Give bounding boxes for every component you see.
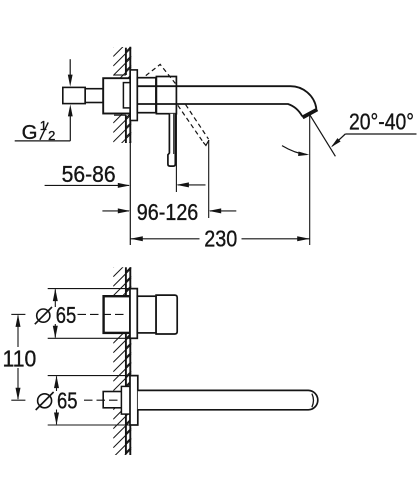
wall line right / finished wall face (top view), continues as extension line for dims	[129, 47, 131, 143]
svg-text:20°-40°: 20°-40°	[349, 109, 414, 135]
union section	[85, 89, 103, 103]
angle leader line	[332, 134, 345, 146]
swivel arc arrow	[282, 146, 307, 155]
extension line at dashed lever tip	[208, 140, 210, 218]
dim 96-126 line right tail	[210, 210, 236, 212]
handle centerline	[11, 313, 25, 315]
escutcheon (top view)	[130, 70, 137, 121]
svg-text:96-126: 96-126	[137, 199, 199, 225]
svg-text:65: 65	[57, 387, 78, 413]
spout escutcheon (bottom view)	[130, 376, 138, 425]
wall section (bottom view) hatching	[113, 249, 131, 476]
handle knob inner	[137, 296, 156, 333]
dim 56-86 line left tail	[45, 184, 129, 186]
extension line at spout tip	[309, 114, 311, 245]
dim text dia65 (handle)	[37, 309, 50, 322]
dim 110 line+arrows	[17, 316, 19, 348]
dim 96-126 line left tail	[102, 210, 129, 212]
spout tube bottom outline	[137, 104, 302, 116]
dim 56-86 line right tail	[178, 184, 206, 186]
dim diameter 65 (handle) extension lines	[48, 288, 138, 290]
wall section (top view) hatching	[113, 29, 131, 161]
handle escutcheon	[130, 289, 137, 339]
collar section	[137, 78, 156, 113]
dim diameter 65 (spout) line+arrows	[56, 376, 58, 391]
spout through-wall sleeve (bottom view)	[121, 386, 130, 414]
dim diameter 65 (spout) extension lines	[48, 375, 138, 377]
concealed body (in wall)	[103, 78, 130, 113]
dim text dia65 (spout)	[38, 394, 52, 408]
wall line left (bottom view)	[125, 267, 127, 296]
lever dashed position swung out	[178, 105, 203, 142]
dim diameter 65 (handle) line+arrows	[54, 289, 56, 307]
svg-text:1: 1	[40, 118, 47, 133]
lever dashed position up (rotated)	[146, 64, 176, 83]
spout supply pipe (bottom view)	[103, 392, 130, 408]
G1/2 label underline	[15, 140, 71, 142]
spout outlet face	[302, 108, 318, 118]
wall line right (bottom view)	[129, 267, 131, 455]
wall line left (top view)	[125, 48, 127, 75]
lever handle (solid, down position)	[168, 114, 175, 166]
wall hole bottom edge	[114, 114, 126, 116]
svg-text:56-86: 56-86	[62, 161, 116, 187]
spout tube (bottom view)	[138, 390, 318, 409]
handle knob cap	[156, 295, 177, 334]
spout centerline	[11, 399, 25, 401]
wall hole top edge	[114, 74, 126, 76]
valve body section	[156, 77, 176, 114]
dim 230 line	[130, 238, 199, 240]
G1/2 upper pointer	[69, 59, 71, 76]
svg-text:230: 230	[204, 226, 237, 252]
svg-text:65: 65	[56, 302, 77, 328]
spout tube top outline	[137, 86, 316, 109]
spray direction line	[310, 115, 336, 157]
svg-text:2: 2	[48, 128, 55, 143]
svg-text:G: G	[22, 122, 38, 144]
G1/2 lower pointer / leader	[69, 115, 71, 141]
extension line at lever (solid) tip	[175, 114, 177, 192]
svg-text:110: 110	[3, 345, 37, 371]
spout end dome arc	[312, 394, 314, 408]
through-wall sleeve	[123, 83, 131, 108]
angle label underline	[345, 133, 416, 135]
supply pipe G1/2 (top view)	[63, 87, 85, 103]
handle concealed square body	[104, 296, 131, 333]
